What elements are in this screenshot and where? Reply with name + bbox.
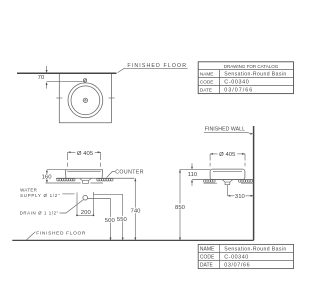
drain line 500 level — [88, 198, 111, 200]
svg-text:C-00340: C-00340 — [224, 255, 249, 261]
svg-text:500: 500 — [105, 218, 116, 224]
basin outer circle (plan) — [68, 83, 103, 118]
svg-text:03/07/66: 03/07/66 — [224, 263, 250, 269]
svg-text:Sensation-Round Basin: Sensation-Round Basin — [224, 71, 286, 77]
svg-text:200: 200 — [81, 210, 92, 216]
dimension 70 — [38, 66, 48, 89]
drain outlet circle — [83, 195, 88, 200]
svg-text:COUNTER: COUNTER — [115, 169, 144, 175]
counter hatch left (front) — [57, 178, 75, 181]
counter label — [107, 169, 144, 177]
basin centerline (plan) — [47, 81, 83, 83]
height line 850 — [174, 170, 185, 241]
svg-text:NAME: NAME — [200, 71, 214, 76]
centerline CL mark — [83, 79, 86, 82]
supply right stub — [93, 194, 95, 215]
svg-text:850: 850 — [175, 205, 186, 211]
svg-text:310: 310 — [235, 194, 246, 200]
svg-text:110: 110 — [188, 172, 198, 178]
basin side elevation — [210, 169, 245, 179]
svg-text:DATE: DATE — [200, 87, 212, 92]
rim level line — [180, 169, 211, 171]
drain dot (plan) — [85, 100, 87, 102]
svg-text:FINISHED FLOOR: FINISHED FLOOR — [127, 63, 187, 69]
svg-text:Ø 405: Ø 405 — [77, 151, 94, 157]
finished floor label (bottom) — [27, 231, 87, 240]
dimension D405 (front elevation) — [68, 151, 101, 167]
water supply left stub — [76, 192, 78, 215]
finished wall line — [253, 126, 255, 240]
dimension 110 — [188, 163, 198, 186]
dimension 200 — [76, 210, 94, 216]
height line 500 — [104, 199, 115, 241]
svg-text:160: 160 — [42, 174, 53, 180]
svg-text:CODE: CODE — [200, 255, 215, 261]
svg-text:70: 70 — [38, 75, 45, 81]
wall line (plan view, top) — [17, 72, 117, 74]
dimension 160 (front left) — [41, 169, 65, 183]
svg-text:WATER: WATER — [20, 188, 37, 193]
finished wall label — [204, 127, 253, 135]
svg-text:DATE: DATE — [200, 263, 214, 269]
counter hatch left (side) — [203, 180, 215, 183]
svg-text:SUPPLY Ø 1/2": SUPPLY Ø 1/2" — [20, 193, 60, 198]
counter bottom line (front) — [46, 182, 104, 184]
counter line (side elevation) — [192, 179, 253, 181]
dimension D405 (side elevation) — [210, 152, 245, 166]
counter hatch right (side) — [238, 180, 252, 183]
basin inner circle (plan) — [71, 86, 100, 115]
svg-text:FINISHED FLOOR: FINISHED FLOOR — [36, 231, 86, 237]
centerline tick left — [56, 97, 62, 99]
catalog table (bottom right, faint) — [198, 244, 293, 268]
svg-text:NAME: NAME — [200, 247, 215, 253]
height line 550 — [117, 194, 128, 240]
counter bottom line (side) — [204, 182, 254, 184]
svg-text:DRAIN Ø 1 1/2": DRAIN Ø 1 1/2" — [20, 211, 59, 216]
counter square (plan view) — [59, 74, 111, 123]
water supply label — [20, 188, 60, 199]
svg-text:DRAWING FOR CATALOG: DRAWING FOR CATALOG — [224, 64, 279, 69]
svg-text:03/07/66: 03/07/66 — [224, 87, 253, 93]
dimension 310 — [227, 194, 253, 200]
svg-text:740: 740 — [131, 209, 142, 215]
svg-text:Ø 405: Ø 405 — [219, 152, 236, 158]
drain label — [20, 200, 84, 216]
drain fitting (side elevation) — [222, 180, 232, 185]
water supply leader — [62, 193, 74, 195]
svg-text:FINISHED WALL: FINISHED WALL — [205, 127, 245, 133]
drain centerline (side) — [226, 185, 228, 196]
drain fitting (front elevation) — [80, 179, 91, 184]
counter hatch right (front) — [97, 178, 113, 181]
supply line 550 level — [93, 192, 122, 195]
height line 740 — [130, 178, 141, 240]
svg-text:C-00340: C-00340 — [224, 79, 249, 85]
basin front elevation — [65, 170, 103, 179]
finished floor line (bottom) — [12, 239, 253, 241]
centerline tick right — [109, 97, 115, 99]
svg-text:CODE: CODE — [200, 79, 214, 84]
counter line (front elevation) — [56, 177, 134, 179]
svg-text:Sensation-Round Basin: Sensation-Round Basin — [224, 247, 286, 253]
drain circle (plan) — [83, 98, 87, 102]
finished floor label (top) — [118, 63, 188, 72]
drawing-for-catalog table (top right) — [198, 62, 293, 94]
svg-text:550: 550 — [117, 217, 128, 223]
